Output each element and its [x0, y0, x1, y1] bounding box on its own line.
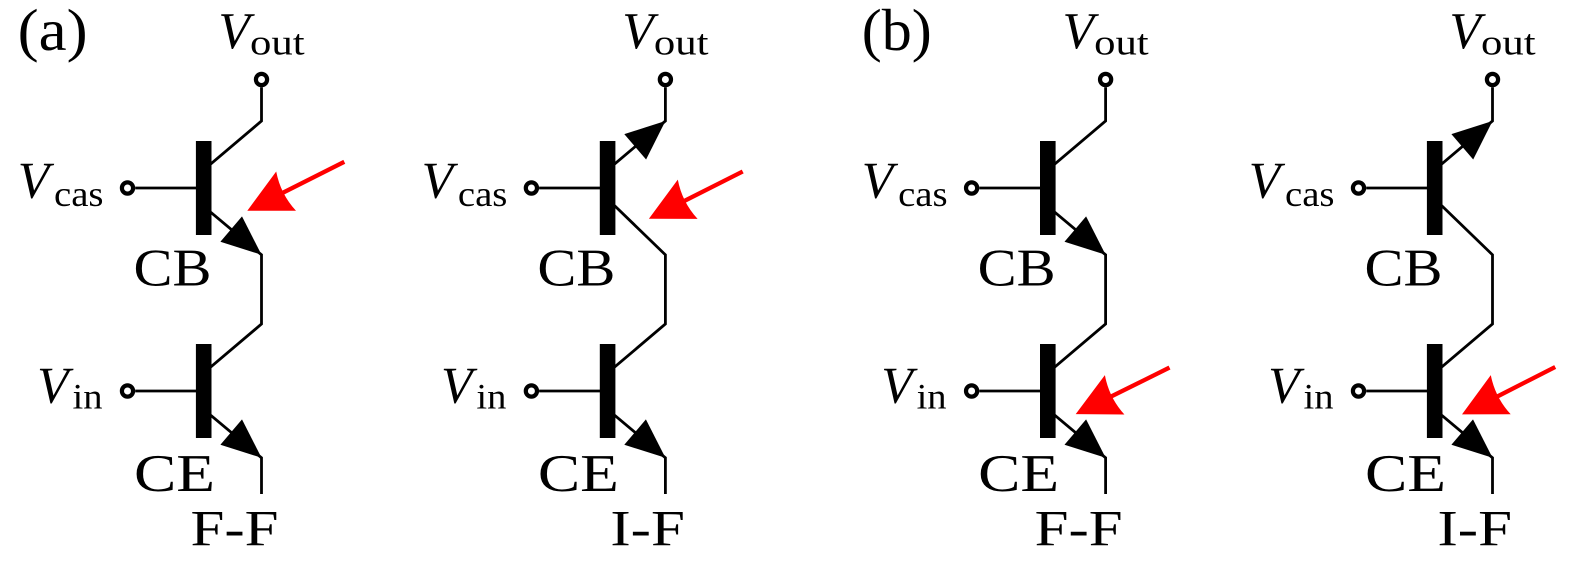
- svg-text:cas: cas: [458, 174, 508, 214]
- svg-text:CE: CE: [538, 445, 619, 503]
- svg-text:V: V: [37, 357, 74, 414]
- svg-text:cas: cas: [54, 174, 104, 214]
- svg-text:F-F: F-F: [191, 502, 279, 558]
- svg-text:V: V: [862, 152, 899, 209]
- svg-text:CE: CE: [978, 445, 1059, 503]
- svg-text:CB: CB: [134, 240, 212, 298]
- svg-text:CE: CE: [134, 445, 215, 503]
- svg-text:F-F: F-F: [1035, 502, 1123, 558]
- svg-text:V: V: [422, 152, 459, 209]
- svg-text:I-F: I-F: [610, 502, 685, 558]
- svg-text:in: in: [1304, 377, 1334, 417]
- svg-text:out: out: [654, 23, 709, 63]
- svg-text:V: V: [1249, 152, 1286, 209]
- svg-text:V: V: [18, 152, 55, 209]
- svg-text:out: out: [1094, 23, 1149, 63]
- svg-text:V: V: [881, 357, 918, 414]
- svg-text:CB: CB: [1365, 240, 1443, 298]
- svg-text:I-F: I-F: [1438, 502, 1513, 558]
- svg-text:(b): (b): [862, 0, 932, 63]
- svg-text:out: out: [1481, 23, 1536, 63]
- svg-text:out: out: [250, 23, 305, 63]
- svg-text:CE: CE: [1365, 445, 1446, 503]
- svg-text:CB: CB: [978, 240, 1056, 298]
- svg-text:in: in: [73, 377, 103, 417]
- svg-text:V: V: [441, 357, 478, 414]
- svg-text:cas: cas: [898, 174, 948, 214]
- svg-text:in: in: [917, 377, 947, 417]
- svg-text:V: V: [1268, 357, 1305, 414]
- svg-text:in: in: [476, 377, 506, 417]
- svg-text:cas: cas: [1285, 174, 1335, 214]
- svg-text:CB: CB: [537, 240, 615, 298]
- svg-text:(a): (a): [18, 0, 88, 63]
